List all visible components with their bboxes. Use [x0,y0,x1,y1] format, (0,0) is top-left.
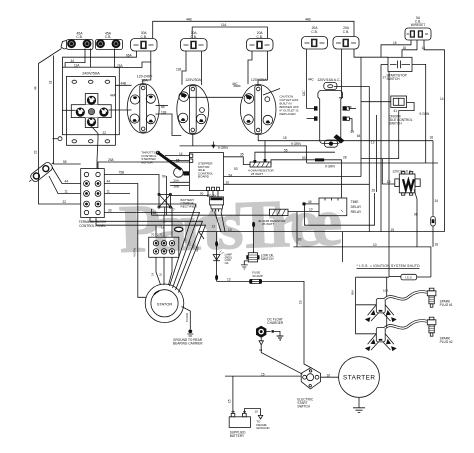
wire 35 from board top right [224,157,251,165]
svg-text:70 72 71: 70 72 71 [151,232,163,236]
wire 19 fuse line [217,281,311,367]
svg-text:75B: 75B [119,171,125,175]
svg-text:C.B.: C.B. [343,30,349,34]
svg-text:10: 10 [373,243,377,247]
wire 15 from CB8 left [381,40,411,57]
wire 9 GRN below receptacles [180,145,307,147]
wire 18 right vertical [432,141,434,216]
wire 44 left vertical [39,64,81,205]
svg-text:10: 10 [255,410,259,414]
board U2 stepper motor idle control [189,153,223,197]
svg-text:28B: 28B [174,185,179,189]
ground lug on panel left [58,137,62,141]
wire 44 from breaker CB1 down [65,49,85,68]
mounting flag left of CB1 [61,41,67,50]
svg-text:* I.S.S. = IGNITION SYSTEM SHU: * I.S.S. = IGNITION SYSTEM SHUTD [357,264,421,268]
spark plug 1 [427,288,453,307]
svg-text:I.S.S.: I.S.S. [405,276,413,280]
svg-text:11: 11 [65,190,69,194]
svg-text:28: 28 [343,156,347,160]
wire 4 GRN to stator left [138,222,146,297]
wire to low oil switch [253,225,255,253]
svg-text:10A: 10A [383,289,388,293]
wire 14 from CB8 right [424,40,445,232]
stepper motor M1 [174,168,184,178]
svg-text:4 GRN: 4 GRN [133,248,137,257]
wire from CB7 down [339,49,341,98]
svg-text:19: 19 [299,300,303,304]
circuit breaker CB8 5A with reset [405,16,431,40]
svg-text:15: 15 [391,228,395,232]
svg-text:PLUG #1: PLUG #1 [440,303,453,307]
ground at low oil switch [244,261,248,265]
wire 75A from breaker CB2 right down [115,49,151,68]
caution note text [280,95,300,117]
svg-text:99: 99 [162,175,166,179]
wire 14 from CB7 to start/stop switch [354,49,388,57]
battery BT1 [229,410,250,438]
svg-text:17: 17 [383,76,387,80]
panel mounting holes [72,80,77,83]
svg-text:25 WATT: 25 WATT [251,172,264,176]
black connector bar on 9GRN wire [315,158,324,161]
svg-text:CHARGER: CHARGER [267,321,284,325]
svg-text:10: 10 [309,208,313,212]
wire 93 vertical to 10 line [296,212,298,247]
wire 88 from AC outlet right [349,108,356,110]
wire 17 from start/stop left down [381,63,388,65]
switch S4 low oil [246,253,274,262]
svg-text:CONTROL PANEL: CONTROL PANEL [79,224,106,228]
svg-text:SWITCH: SWITCH [261,257,274,261]
wire 15 line end to lamp branch [199,232,204,239]
wires connector P1 bottom to stator [156,257,172,285]
svg-text:GROUND: GROUND [256,426,270,430]
wire 10A into coil T1 [386,277,388,298]
svg-text:55: 55 [176,159,180,163]
wire 45 to relay [303,202,306,205]
svg-text:C.B.: C.B. [140,35,146,39]
svg-text:10: 10 [226,181,230,185]
wires connector P1 top [156,207,172,237]
wire 50 board right [224,183,370,185]
wire battery to frame ground [244,409,260,416]
circuit breaker CB3 30A [131,31,158,51]
wire 88 from J1 right [156,105,168,107]
svg-text:30A: 30A [141,78,148,82]
connector P1 battery harness [149,232,179,257]
receptacle 50A outlet left [76,108,85,117]
receptacle cross 50A outline [85,94,98,128]
svg-text:35: 35 [240,152,244,156]
wire 10 long horizontal [293,247,431,277]
wire 55 from resistor R1 top [255,152,335,160]
svg-text:240V/50A: 240V/50A [82,70,100,75]
fuse F1 30 amp [250,271,263,284]
wire 54 board right [224,176,362,178]
wire left outlet to panel edge [62,109,75,111]
svg-text:13: 13 [227,278,231,282]
wire 15 long horizontal [199,231,445,233]
svg-text:RELAY: RELAY [207,193,217,197]
svg-text:66A: 66A [126,53,133,57]
inline fuse F2 capsule [431,216,436,226]
ground at starter [358,397,360,407]
wire 14 motor to board [165,155,189,157]
ISS module [401,274,417,280]
throttle control stepper motor label [141,151,157,165]
svg-text:13: 13 [228,228,232,232]
circuit breaker CB5 20A [247,31,274,51]
svg-text:SWITCH: SWITCH [389,122,402,126]
svg-text:64: 64 [357,134,361,138]
svg-text:11B: 11B [176,68,181,72]
circuit breaker CB6 20A [302,26,328,49]
svg-text:BEARING CARRIER: BEARING CARRIER [173,341,203,345]
lamp wire vertical [216,232,218,281]
svg-text:56: 56 [153,211,157,215]
wire bus 11A top [192,27,267,39]
svg-text:44A: 44A [110,93,117,97]
wire 11 left vertical [54,56,81,165]
svg-text:44C: 44C [232,82,239,86]
svg-text:16: 16 [327,374,331,378]
resistor R2 40 ohm 25 watt [258,209,288,226]
wire 25A from block top right [98,162,189,169]
svg-text:69: 69 [351,130,355,134]
wires 29A 28B motor to board [170,182,189,185]
relay connector K1 [207,193,225,231]
svg-text:120V/30A: 120V/30A [185,78,201,82]
wire 88A ignition left vertical [356,276,389,278]
wire 11 block right [104,193,130,195]
wire 9 GRN arrow near board [212,142,214,145]
wire 90 rectifier to board [170,194,208,196]
svg-text:W/RESET: W/RESET [411,23,426,27]
starter motor [339,357,380,398]
wire 19 into 12V outlet [382,159,394,184]
svg-text:TIME: TIME [351,200,360,204]
resistor R1 4 ohm 25 watt [248,159,274,176]
svg-text:SWITCH: SWITCH [297,405,310,409]
svg-text:16: 16 [403,46,407,50]
svg-text:25 WATT: 25 WATT [262,222,275,226]
svg-text:14: 14 [151,272,155,276]
wire 66A from CB3 to panel [63,51,137,67]
svg-text:88: 88 [161,105,165,109]
svg-text:88A: 88A [350,290,354,295]
wire 28 vertical to relay [324,160,341,198]
svg-text:C.B.: C.B. [256,35,262,39]
wire 75B from block right [104,175,159,195]
receptacle 50A outlet top [87,96,96,105]
svg-text:OIL: OIL [225,261,230,265]
svg-text:28: 28 [372,189,376,193]
wire 77 rectifier bottom [164,207,166,215]
svg-text:22: 22 [33,150,37,154]
svg-text:90: 90 [200,192,204,196]
wire 41 from idle switch bottom [361,103,414,159]
stepper motor lever arm [157,151,182,170]
wire 11A from breaker CB2 down [90,49,92,68]
wire 44C/11C from CB6 down to AC outlet [307,49,314,108]
spark plug 2 [427,317,453,344]
svg-text:120V/20A: 120V/20A [251,78,267,82]
wire right outlet to receptacle J1 [109,109,132,111]
svg-text:PLUG #2: PLUG #2 [440,340,453,344]
svg-text:13: 13 [212,225,216,229]
svg-text:22: 22 [103,131,107,135]
svg-text:14: 14 [440,97,444,101]
svg-text:STATOR: STATOR [157,301,173,306]
wire bundle 11A-55A to stator [104,204,196,286]
svg-text:BOARD: BOARD [198,175,210,179]
LED lamp red [213,251,232,266]
charger connector hex [256,318,284,338]
ignition coil T2 [365,328,397,352]
svg-text:44B: 44B [121,82,127,86]
wire 14 right vertical to idle switch [361,101,391,103]
svg-text:22: 22 [63,200,67,204]
wire 14 start/stop right to idle switch [412,64,426,163]
svg-text:9 GRN: 9 GRN [420,112,430,116]
svg-text:RELAY: RELAY [351,210,362,214]
wire 22 from cross bottom down to terminal block [92,127,99,169]
relay K2 time delay [319,198,362,216]
svg-text:9 GRN: 9 GRN [325,165,335,169]
panel 240V/50A outer wiring rect [62,67,119,135]
svg-text:44: 44 [107,180,111,184]
svg-text:9 GRN: 9 GRN [218,146,228,150]
wire 55 motor to board [168,159,189,161]
wire 15 to start switch [225,375,301,377]
svg-text:25A: 25A [108,158,115,162]
svg-text:34: 34 [435,199,439,203]
ignition coil T1 [365,299,397,323]
wire coil1 to coil2 [386,313,388,328]
switch S3 engine (slanted) [27,159,57,185]
receptacle J3 120V/20A twist lock [240,78,276,135]
spark plug cable 2 [385,321,428,329]
spark plug cable 1 [385,292,428,300]
wire from CB5 to receptacle J3 [258,51,267,85]
alternator stator [145,284,184,323]
wire from CB3 right down to receptacle J1 [143,62,151,84]
circuit breaker CB1 45A (dual pole, left pair) [67,32,94,50]
wires switch to terminal block [52,167,81,184]
receptacle 50A outlet bottom [87,117,96,126]
svg-text:29A: 29A [174,179,179,183]
svg-text:53: 53 [234,167,238,171]
ground at charger [266,330,270,332]
wire 44C to J3 [234,85,241,87]
wire 16 from CB8 to start/stop top [402,40,417,57]
receptacle J1 120-240V 30A twist lock [127,74,159,133]
svg-text:18: 18 [283,136,287,140]
circuit breaker CB2 45A (dual pole, right pair) [96,32,123,50]
wire 16 vertical mid [342,232,344,262]
wire bus 44B top [153,21,354,38]
svg-text:13: 13 [371,141,375,145]
wire from flag to lower-left [39,49,62,64]
wire ISS right [417,276,431,278]
svg-text:55: 55 [284,148,288,152]
switch S2 idle control [389,96,413,126]
svg-text:C.B.: C.B. [190,35,196,39]
svg-text:C.B.: C.B. [311,30,317,34]
wire 44B panel to receptacle J1 [115,84,131,86]
svg-text:16: 16 [159,272,163,276]
svg-text:93: 93 [298,237,302,241]
terminal block control panel TB1 [79,169,108,228]
caution note pointer [263,89,280,96]
wire 56 horizontal [152,214,270,216]
rectifier BR1 battery charge [158,193,198,208]
svg-text:11C: 11C [302,90,306,96]
svg-text:44A: 44A [195,247,200,253]
circuit breaker CB4 30A [181,31,208,51]
svg-text:14: 14 [179,152,183,156]
svg-text:C.B.: C.B. [105,35,112,39]
wire 44 block right [104,184,138,223]
wire from CB4 to receptacle J2 [182,51,186,85]
svg-text:54: 54 [229,173,233,177]
wire ISS left [389,276,401,278]
svg-text:53: 53 [302,156,306,160]
svg-text:44B: 44B [305,17,311,21]
switch S5 electric start [297,368,320,409]
wire from start/stop bottom to ISS line [388,72,390,277]
circuit breaker CB7 20A [333,26,359,49]
svg-text:9 GRN: 9 GRN [291,142,301,146]
svg-text:MOTOR: MOTOR [141,161,153,165]
wire 53 resistor R1 right [271,160,315,165]
ground at rear bearing carrier [188,329,192,333]
svg-text:15: 15 [393,41,397,45]
svg-text:C.B.: C.B. [76,35,83,39]
svg-text:30 AMP: 30 AMP [252,274,263,278]
svg-text:15: 15 [228,399,232,403]
wire 16 start switch to starter [321,376,339,378]
svg-text:11B: 11B [161,110,166,114]
wire 11B from J1 right [155,114,181,136]
wire from J2 slot right [188,96,243,98]
receptacle J2 120V/30A twist lock [177,78,209,134]
outlet 120V/15A A.C. [314,78,349,147]
switch S1 start/stop [387,57,413,81]
svg-text:SWITCH: SWITCH [387,77,401,81]
svg-text:11A: 11A [221,23,227,27]
svg-text:44: 44 [71,59,75,63]
svg-text:18: 18 [161,225,165,229]
wire 99 from motor down [166,176,168,215]
svg-text:88: 88 [348,105,352,109]
svg-text:41: 41 [394,109,398,113]
svg-text:18: 18 [435,242,439,246]
svg-text:45: 45 [308,200,312,204]
svg-text:120V/15A A.C.: 120V/15A A.C. [317,78,340,82]
arrow below charger [260,338,262,341]
panel 240V/50A plate [66,77,115,146]
svg-text:STARTER: STARTER [343,375,375,382]
svg-text:14: 14 [422,46,426,50]
svg-text:BATTERY: BATTERY [230,434,245,438]
svg-text:55: 55 [63,160,67,164]
svg-text:15: 15 [261,372,265,376]
svg-text:44C: 44C [308,77,315,81]
outlet J4 12V/10A DC [392,170,420,196]
svg-text:44: 44 [65,180,69,184]
wire 98 from 12V outlet bottom right [414,190,417,247]
wire 18 capsule down to ISS [432,226,434,247]
svg-text:18: 18 [430,136,434,140]
receptacle 50A outlet right [99,108,108,117]
svg-text:33: 33 [108,209,112,213]
svg-text:44: 44 [33,86,37,90]
wire from terminal 45 loop to 12V outlet area [305,193,375,225]
receptacle 50A center pin [88,108,94,114]
wire 8 GRN stator to ground [182,307,191,330]
svg-text:8 GRN: 8 GRN [185,313,189,322]
wire 18 from J3 bottom [258,135,433,141]
wire 69 from AC outlet right [349,119,352,131]
wire 10 resistor R2 to relay [288,211,319,213]
wire 15 battery vertical [232,376,234,413]
svg-text:44B: 44B [186,17,192,21]
svg-text:11: 11 [48,80,52,84]
svg-text:DELAY: DELAY [351,205,362,209]
svg-text:REPLACED: REPLACED [280,112,297,116]
svg-text:19: 19 [387,180,391,184]
wire charger to start switch [261,345,302,374]
svg-text:11: 11 [107,190,111,194]
